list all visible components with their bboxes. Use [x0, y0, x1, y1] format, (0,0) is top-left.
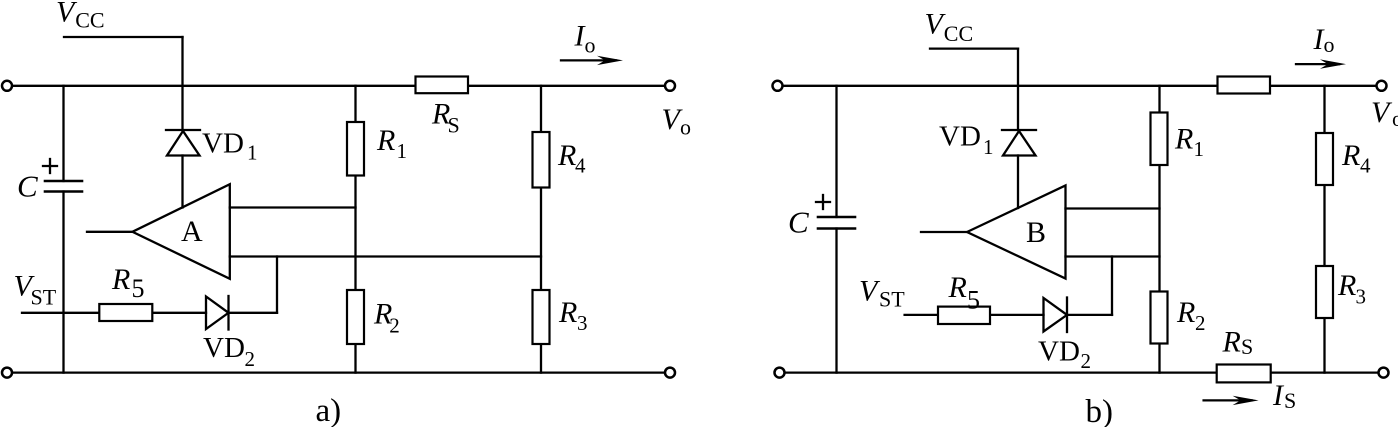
- svg-text:CC: CC: [944, 21, 973, 46]
- svg-text:3: 3: [1356, 285, 1367, 309]
- capacitor C (a): [45, 180, 82, 183]
- resistor R5 (b): [938, 307, 990, 324]
- wire op-amp input (a): [87, 231, 132, 233]
- wire R1/R2 branch (b): [1158, 86, 1160, 373]
- terminal top-left (b): [773, 81, 783, 91]
- svg-text:5: 5: [132, 274, 145, 303]
- svg-text:ST: ST: [31, 285, 57, 310]
- wire R4/R3 branch (a): [540, 86, 542, 373]
- svg-text:4: 4: [575, 154, 586, 178]
- svg-text:2: 2: [1195, 311, 1206, 335]
- svg-text:V: V: [859, 275, 881, 308]
- svg-text:S: S: [1241, 334, 1253, 359]
- svg-text:1: 1: [1194, 137, 1205, 161]
- wire riser to VD2 (a): [276, 257, 278, 313]
- wire bottom rail (b): [784, 371, 1378, 373]
- svg-text:1: 1: [983, 135, 994, 159]
- terminal bottom-right (b): [1379, 368, 1389, 378]
- resistor R3 (a): [533, 290, 550, 344]
- wire R1/R2 branch (a): [354, 86, 356, 373]
- diode VD1 cathode bar (b): [1002, 129, 1036, 131]
- capacitor + polarity mark (a): [43, 165, 57, 167]
- capacitor + polarity mark (b): [816, 201, 830, 203]
- svg-text:5: 5: [967, 286, 980, 315]
- diode VD2 cathode bar (b): [1066, 298, 1068, 333]
- svg-text:o: o: [1324, 32, 1335, 57]
- resistor R1 (a): [347, 122, 364, 176]
- wire capacitor branch upper (a): [62, 86, 64, 181]
- wire VST line (b): [905, 314, 1044, 316]
- wire op-amp lower output (a): [230, 255, 541, 257]
- svg-text:S: S: [1284, 388, 1296, 413]
- wire VCC vertical to VD1 (a): [181, 37, 183, 130]
- svg-text:2: 2: [245, 347, 256, 371]
- svg-text:VD: VD: [939, 121, 981, 153]
- capacitor C (b): [818, 216, 855, 219]
- wire op-amp lower output (b): [1066, 255, 1160, 257]
- wire VCC horizontal (b): [930, 47, 1018, 49]
- terminal bottom-left (a): [2, 368, 12, 378]
- op-amp A: [132, 184, 229, 279]
- svg-text:R: R: [1176, 296, 1195, 329]
- svg-text:R: R: [557, 139, 576, 172]
- current arrow Io (b): [1296, 63, 1339, 65]
- svg-text:4: 4: [1360, 154, 1371, 178]
- svg-text:a): a): [316, 393, 342, 427]
- resistor series top rail (b): [1218, 77, 1271, 94]
- svg-text:o: o: [1392, 106, 1398, 131]
- wire bottom rail (a): [12, 371, 665, 373]
- wire VCC vertical to VD1 (b): [1017, 49, 1019, 130]
- wire top rail (a): [12, 85, 665, 87]
- wire VD1 anode to op-amp (b): [1017, 156, 1019, 209]
- svg-text:2: 2: [389, 314, 400, 338]
- terminal top-left (a): [2, 81, 12, 91]
- svg-text:C: C: [17, 169, 38, 204]
- resistor R2 (a): [347, 290, 364, 344]
- wire op-amp upper output (a): [230, 206, 356, 208]
- wire capacitor branch upper (b): [835, 86, 837, 217]
- wire top rail (b): [782, 85, 1376, 87]
- wire riser to VD2 (b): [1111, 257, 1113, 315]
- resistor R1 (b): [1151, 113, 1168, 166]
- wire R4/R3 branch (b): [1323, 86, 1325, 373]
- svg-text:A: A: [181, 215, 203, 248]
- svg-text:3: 3: [577, 311, 588, 335]
- wire VD1 anode to op-amp (a): [181, 156, 183, 208]
- svg-text:C: C: [788, 205, 809, 240]
- svg-text:1: 1: [247, 141, 258, 165]
- diode VD1 (b): [1003, 131, 1036, 156]
- svg-text:R: R: [558, 296, 577, 329]
- wire op-amp upper output (b): [1066, 207, 1160, 209]
- diode VD1 cathode bar (a): [166, 129, 200, 131]
- svg-text:2: 2: [1081, 349, 1092, 373]
- terminal bottom-left (b): [775, 368, 785, 378]
- svg-text:b): b): [1086, 394, 1114, 427]
- current arrow IS (b): [1204, 399, 1252, 401]
- wire VCC horizontal (a): [64, 36, 183, 38]
- svg-text:CC: CC: [75, 8, 104, 33]
- svg-text:S: S: [448, 113, 460, 138]
- resistor R4 (b): [1316, 133, 1333, 185]
- svg-text:1: 1: [397, 139, 408, 163]
- resistor RS (b): [1217, 365, 1271, 383]
- svg-text:V: V: [1371, 96, 1393, 129]
- svg-text:VD: VD: [202, 128, 244, 160]
- diode VD2 (a): [206, 297, 229, 330]
- svg-text:R: R: [1222, 326, 1241, 359]
- svg-text:R: R: [948, 271, 967, 304]
- svg-text:R: R: [1341, 139, 1360, 172]
- svg-text:VD: VD: [1038, 336, 1080, 368]
- svg-text:R: R: [111, 263, 130, 296]
- diode VD2 (b): [1044, 298, 1068, 332]
- svg-text:o: o: [680, 114, 691, 139]
- svg-text:ST: ST: [879, 287, 905, 312]
- resistor R3 (b): [1316, 266, 1333, 318]
- svg-text:o: o: [585, 32, 596, 57]
- resistor R5 (a): [99, 304, 152, 321]
- wire VST line (a): [22, 312, 206, 314]
- resistor R4 (a): [533, 132, 550, 188]
- current arrow Io (a): [561, 59, 616, 61]
- svg-text:R: R: [1337, 269, 1356, 302]
- terminal top-right Vo node (a): [665, 81, 675, 91]
- terminal top-right Vo node (b): [1377, 81, 1387, 91]
- wire capacitor branch lower (a): [62, 192, 64, 373]
- svg-text:B: B: [1026, 216, 1046, 249]
- wire VD2 cathode to riser (a): [229, 312, 278, 314]
- wire VD2 cathode to riser (b): [1067, 314, 1112, 316]
- svg-text:R: R: [1174, 123, 1193, 156]
- svg-text:R: R: [376, 124, 395, 157]
- terminal bottom-right (a): [665, 368, 675, 378]
- wire capacitor branch lower (b): [835, 229, 837, 373]
- diode VD1 (a): [167, 131, 200, 156]
- resistor RS (a): [416, 77, 469, 94]
- wire op-amp input (b): [921, 231, 967, 233]
- resistor R2 (b): [1151, 292, 1168, 344]
- op-amp B: [967, 186, 1066, 279]
- svg-text:VD: VD: [203, 332, 245, 364]
- diode VD2 cathode bar (a): [227, 296, 229, 330]
